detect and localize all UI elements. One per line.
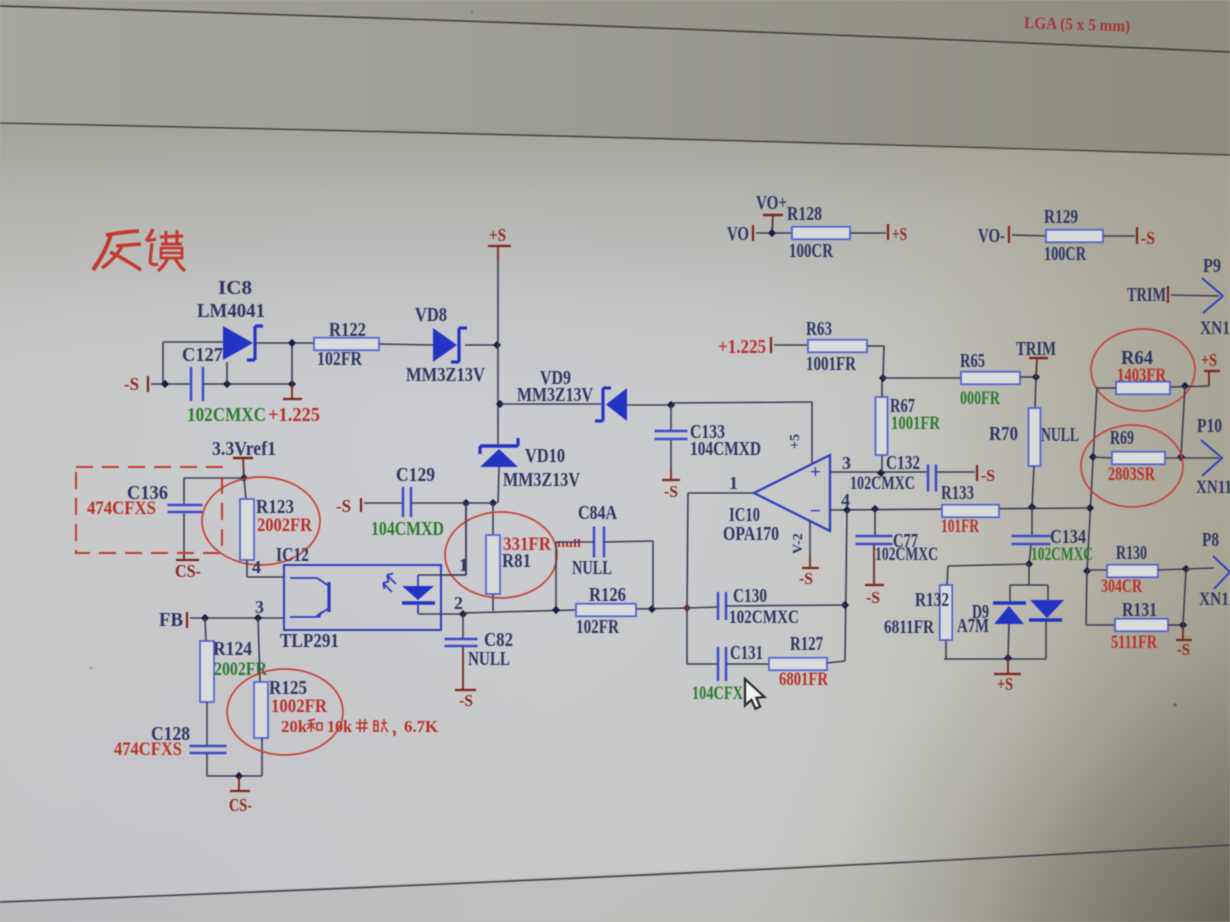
- svg-text:10k: 10k: [327, 717, 353, 736]
- svg-text:VO-: VO-: [978, 225, 1005, 247]
- svg-text:+5: +5: [788, 434, 803, 449]
- svg-text:+: +: [810, 462, 821, 483]
- svg-text:XN1: XN1: [1199, 589, 1229, 610]
- svg-text:1001FR: 1001FR: [806, 353, 856, 375]
- svg-text:6.7K: 6.7K: [404, 717, 439, 736]
- svg-text:R126: R126: [589, 584, 626, 606]
- svg-text:C129: C129: [396, 464, 435, 486]
- svg-text:NULL: NULL: [572, 557, 612, 579]
- svg-text:474CFXS: 474CFXS: [87, 498, 156, 519]
- svg-text:104CMXD: 104CMXD: [690, 438, 761, 460]
- svg-text:20k: 20k: [281, 717, 308, 736]
- svg-text:CS-: CS-: [175, 561, 201, 581]
- svg-text:MM3Z13V: MM3Z13V: [517, 384, 593, 406]
- svg-text:R69: R69: [1110, 427, 1134, 449]
- svg-text:R65: R65: [960, 350, 985, 372]
- svg-text:3: 3: [255, 597, 264, 617]
- svg-text:-S: -S: [866, 588, 880, 607]
- svg-text:FB: FB: [159, 609, 183, 631]
- svg-text:LM4041: LM4041: [197, 300, 265, 322]
- svg-text:000FR: 000FR: [960, 388, 1000, 409]
- svg-text:R132: R132: [915, 589, 949, 611]
- svg-text:6801FR: 6801FR: [779, 669, 828, 690]
- svg-text:-S: -S: [336, 496, 351, 516]
- svg-text:XN1: XN1: [1200, 318, 1230, 339]
- svg-text:P8: P8: [1202, 529, 1219, 551]
- svg-text:VD8: VD8: [415, 304, 447, 326]
- svg-text:1002FR: 1002FR: [271, 696, 327, 717]
- svg-text:VO+: VO+: [756, 192, 787, 214]
- svg-text:104CMXD: 104CMXD: [371, 518, 444, 540]
- svg-text:null: null: [557, 536, 582, 550]
- svg-text:-S: -S: [1141, 228, 1155, 248]
- svg-text:XN11: XN11: [1196, 477, 1230, 498]
- svg-text:C132: C132: [886, 452, 920, 474]
- svg-text:3: 3: [842, 453, 851, 473]
- svg-text:+1.225: +1.225: [718, 336, 766, 358]
- svg-text:100CR: 100CR: [789, 240, 833, 262]
- svg-text:NULL: NULL: [468, 648, 510, 670]
- svg-text:C84A: C84A: [578, 502, 617, 524]
- svg-text:304CR: 304CR: [1101, 576, 1142, 597]
- svg-text:-S: -S: [459, 691, 473, 710]
- svg-text:−: −: [810, 501, 821, 522]
- svg-text:P10: P10: [1197, 415, 1222, 437]
- svg-text:C131: C131: [730, 642, 763, 664]
- svg-text:R127: R127: [790, 633, 823, 655]
- svg-text:IC12: IC12: [276, 544, 309, 566]
- svg-text:R129: R129: [1044, 206, 1078, 228]
- svg-text:OPA170: OPA170: [723, 523, 779, 545]
- svg-text:4: 4: [841, 490, 850, 510]
- svg-text:1001FR: 1001FR: [891, 413, 940, 434]
- svg-text:P9: P9: [1203, 255, 1221, 277]
- svg-text:R130: R130: [1116, 542, 1147, 564]
- svg-text:NULL: NULL: [1041, 424, 1079, 446]
- svg-text:102CMXC: 102CMXC: [1031, 544, 1093, 565]
- svg-text:R131: R131: [1122, 599, 1157, 621]
- svg-text:102CMXC: 102CMXC: [729, 607, 799, 628]
- svg-text:R81: R81: [502, 550, 531, 572]
- svg-text:LGA (5 x 5 mm): LGA (5 x 5 mm): [1024, 13, 1131, 36]
- svg-text:R133: R133: [941, 482, 974, 504]
- svg-text:TRIM: TRIM: [1016, 338, 1056, 360]
- svg-text:TLP291: TLP291: [280, 630, 339, 652]
- svg-text:MM3Z13V: MM3Z13V: [406, 364, 485, 386]
- svg-text:MM3Z13V: MM3Z13V: [503, 469, 580, 491]
- svg-text:+S: +S: [1201, 350, 1217, 370]
- svg-text:CS-: CS-: [229, 795, 252, 815]
- svg-text:VO: VO: [727, 223, 749, 245]
- svg-text:V-2: V-2: [791, 533, 806, 554]
- svg-text:-S: -S: [124, 374, 139, 394]
- svg-text:4: 4: [252, 557, 261, 577]
- svg-text:IC8: IC8: [218, 277, 252, 299]
- svg-text:TRIM: TRIM: [1127, 284, 1166, 306]
- svg-text:102CMXC: 102CMXC: [875, 544, 938, 565]
- svg-text:100CR: 100CR: [1044, 243, 1086, 265]
- svg-text:+S: +S: [997, 674, 1013, 694]
- svg-text:2: 2: [454, 593, 463, 613]
- svg-text:474CFXS: 474CFXS: [114, 739, 182, 760]
- svg-text:R128: R128: [787, 203, 822, 225]
- svg-text:C127: C127: [182, 344, 223, 366]
- svg-text:R124: R124: [213, 638, 252, 660]
- svg-text:104CFX: 104CFX: [692, 683, 743, 704]
- svg-text:5111FR: 5111FR: [1111, 632, 1157, 653]
- svg-text:+1.225: +1.225: [268, 404, 320, 426]
- svg-text:R63: R63: [806, 318, 832, 340]
- svg-text:A7M: A7M: [957, 615, 989, 637]
- svg-text:+S: +S: [892, 224, 907, 244]
- svg-text:102CMXC: 102CMXC: [850, 473, 915, 494]
- svg-text:C130: C130: [733, 585, 767, 607]
- svg-text:-S: -S: [799, 569, 813, 588]
- svg-text:+S: +S: [489, 225, 506, 245]
- svg-text:R70: R70: [989, 423, 1018, 445]
- svg-text:-S: -S: [1177, 640, 1190, 659]
- svg-text:102FR: 102FR: [576, 616, 619, 638]
- svg-text:-S: -S: [981, 466, 995, 485]
- svg-text:6811FR: 6811FR: [884, 617, 934, 638]
- svg-text:102CMXC: 102CMXC: [187, 404, 266, 426]
- svg-text:1: 1: [729, 473, 738, 493]
- svg-text:-S: -S: [664, 482, 678, 501]
- svg-text:VD10: VD10: [525, 445, 565, 467]
- svg-text:2002FR: 2002FR: [257, 515, 312, 536]
- svg-text:102FR: 102FR: [317, 348, 362, 370]
- svg-text:2803SR: 2803SR: [1108, 464, 1155, 485]
- svg-text:101FR: 101FR: [941, 516, 979, 537]
- svg-text:3.3Vref1: 3.3Vref1: [212, 438, 276, 460]
